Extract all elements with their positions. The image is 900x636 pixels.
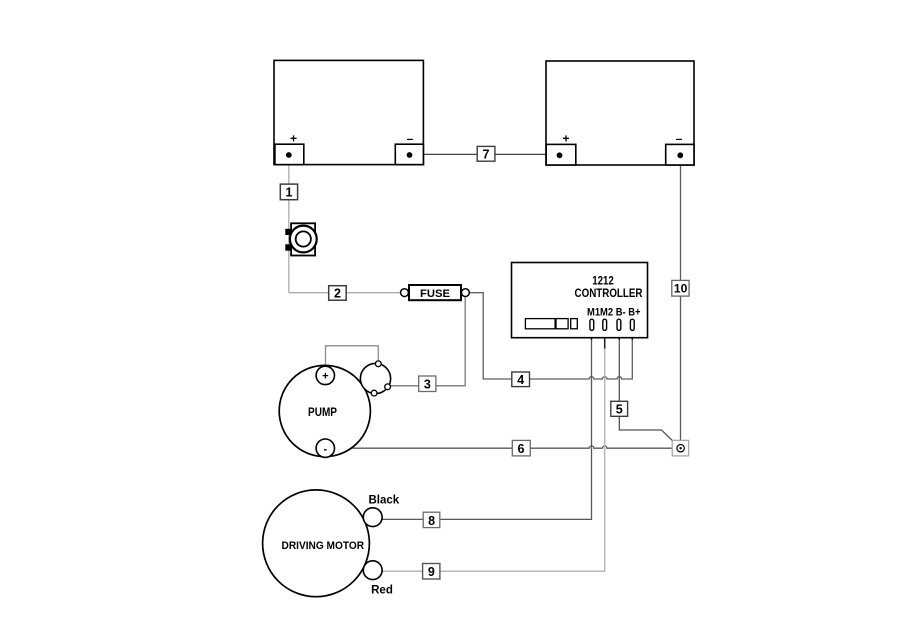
wire 1 (battery1 + to switch to box2 corner) bbox=[288, 157, 290, 293]
pump relay circle bbox=[360, 363, 390, 393]
battery 2 body bbox=[546, 61, 694, 165]
svg-text:DRIVING MOTOR: DRIVING MOTOR bbox=[282, 540, 365, 552]
label box 7 bbox=[477, 146, 495, 161]
svg-text:10: 10 bbox=[674, 282, 688, 296]
key switch outer ring bbox=[290, 226, 317, 253]
controller slot B+ bbox=[630, 319, 634, 330]
svg-text:Black: Black bbox=[368, 495, 399, 507]
relay right terminal bbox=[385, 384, 391, 390]
wire 9 (motor Red to controller M2) bbox=[382, 348, 605, 571]
junction terminal center dot bbox=[679, 447, 681, 449]
battery 1 + terminal dot bbox=[286, 152, 292, 158]
wire 4 (fuse right terminal to controller B+) with hops bbox=[469, 293, 632, 379]
controller M1 stub bbox=[591, 330, 593, 340]
controller 1212 box bbox=[512, 263, 648, 338]
controller connector block large bbox=[525, 319, 555, 329]
battery 2 - terminal dot bbox=[677, 152, 683, 158]
label box 4 bbox=[512, 372, 530, 387]
label box 10 bbox=[672, 280, 689, 296]
label box 2 bbox=[329, 286, 347, 301]
battery 1 body bbox=[274, 60, 423, 164]
wire 8 (motor Black to controller M1) bbox=[382, 338, 592, 519]
motor black terminal circle bbox=[363, 508, 382, 527]
pump - terminal circle bbox=[316, 439, 334, 457]
wire 10 (battery2 - down to junction) bbox=[680, 157, 682, 445]
wire from pump + up over to relay top terminal bbox=[326, 346, 379, 367]
label box 6 bbox=[512, 440, 530, 456]
pump + terminal circle bbox=[316, 366, 334, 384]
svg-text:1212: 1212 bbox=[592, 275, 614, 287]
svg-text:4: 4 bbox=[517, 373, 524, 387]
key switch lower tab bbox=[285, 244, 291, 250]
battery 1 + terminal box bbox=[275, 144, 304, 164]
svg-text:-: - bbox=[323, 443, 327, 455]
battery 1 - terminal dot bbox=[407, 152, 413, 158]
label box 5 bbox=[611, 401, 628, 416]
relay top terminal bbox=[375, 361, 381, 367]
junction terminal circle bbox=[677, 445, 684, 452]
svg-text:8: 8 bbox=[428, 514, 435, 528]
svg-text:+: + bbox=[290, 132, 297, 146]
junction terminal box bbox=[672, 440, 689, 456]
battery 2 - terminal box bbox=[666, 144, 694, 165]
controller slot M1 bbox=[590, 319, 594, 330]
svg-text:9: 9 bbox=[428, 565, 435, 579]
svg-text:5: 5 bbox=[616, 403, 623, 417]
svg-text:CONTROLLER: CONTROLLER bbox=[575, 288, 644, 300]
controller B- stub bbox=[618, 330, 620, 340]
wire 2 (corner to fuse left terminal) bbox=[289, 292, 401, 294]
svg-text:+: + bbox=[562, 132, 569, 146]
svg-text:Red: Red bbox=[371, 585, 393, 597]
label box 8 bbox=[423, 512, 440, 528]
battery 1 - terminal box bbox=[395, 144, 423, 164]
controller B+ stub bbox=[631, 330, 633, 340]
driving motor circle bbox=[263, 490, 370, 597]
key switch inner ring bbox=[296, 231, 311, 246]
battery 2 + terminal dot bbox=[557, 152, 563, 158]
controller connector block small bbox=[571, 319, 578, 329]
svg-text:7: 7 bbox=[483, 147, 490, 161]
controller connector block middle bbox=[556, 319, 568, 329]
svg-text:FUSE: FUSE bbox=[420, 288, 450, 300]
wire 6 (pump - to junction) with hops bbox=[334, 446, 677, 448]
relay bottom terminal bbox=[371, 390, 377, 396]
label box 1 bbox=[280, 184, 297, 200]
svg-text:2: 2 bbox=[334, 286, 341, 300]
wire 3 (relay right terminal to fuse right terminal) bbox=[390, 297, 465, 386]
controller slot B- bbox=[617, 319, 621, 330]
controller M2 black stub bbox=[604, 330, 606, 349]
key switch upper tab bbox=[285, 229, 291, 235]
controller slot M2 bbox=[603, 319, 607, 330]
pump body circle bbox=[279, 365, 370, 456]
battery 2 + terminal box bbox=[546, 144, 576, 165]
wire 7 (battery1 - to battery2 +) bbox=[410, 153, 560, 155]
label box 3 bbox=[419, 376, 436, 392]
svg-text:+: + bbox=[322, 371, 328, 383]
fuse left terminal circle bbox=[401, 289, 409, 297]
svg-text:3: 3 bbox=[424, 378, 431, 392]
svg-text:1: 1 bbox=[286, 185, 293, 199]
wire B- / 5 (controller B- down through box5 to junction diagonal) bbox=[619, 338, 679, 448]
svg-text:PUMP: PUMP bbox=[308, 407, 337, 419]
svg-text:M1M2 B- B+: M1M2 B- B+ bbox=[587, 306, 641, 318]
fuse body bbox=[409, 285, 461, 300]
label box 9 bbox=[423, 564, 440, 580]
fuse right terminal circle bbox=[462, 289, 470, 297]
svg-text:6: 6 bbox=[518, 442, 525, 456]
key switch body bbox=[291, 223, 315, 255]
svg-text:–: – bbox=[407, 132, 414, 146]
svg-text:–: – bbox=[676, 132, 683, 146]
motor red terminal circle bbox=[363, 561, 382, 580]
